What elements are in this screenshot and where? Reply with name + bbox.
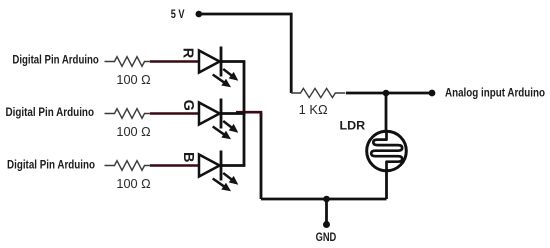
photoresistor LDR body circle	[367, 131, 407, 171]
wire red anode row2	[150, 112, 199, 115]
svg-text:100 Ω: 100 Ω	[116, 73, 150, 87]
resistor R2 100Ω	[105, 109, 151, 119]
wire from 1K resistor to analog terminal	[346, 92, 432, 95]
wire 5V rail: right then down to 1K resistor	[199, 14, 291, 93]
node analog input terminal dot	[429, 90, 436, 97]
LED D2 cathode bar	[220, 99, 223, 129]
LED D1 emission arrows	[213, 69, 239, 87]
svg-text:100 Ω: 100 Ω	[116, 177, 150, 191]
svg-text:1 KΩ: 1 KΩ	[299, 103, 328, 117]
svg-text:100 Ω: 100 Ω	[116, 125, 150, 139]
wire common cathode vertical bus x=244	[243, 62, 246, 166]
resistor R1 100Ω	[105, 57, 151, 67]
node 5V terminal dot	[196, 11, 203, 18]
LED D2 triangle	[199, 103, 220, 125]
svg-text:B: B	[180, 152, 196, 162]
wire red jumper row2 to riser	[236, 112, 261, 116]
node GND junction dot	[323, 196, 330, 203]
svg-text:5 V: 5 V	[171, 7, 185, 21]
svg-text:R: R	[179, 48, 195, 59]
wire common cathode riser at x=261	[260, 113, 263, 199]
node GND terminal dot	[323, 221, 330, 228]
wire cathode row3	[221, 164, 245, 167]
wire LDR bottom down to ground rail	[385, 169, 388, 199]
wire red anode row3	[150, 164, 199, 167]
wire junction down to LDR top	[385, 93, 388, 133]
resistor R4 1KΩ zigzag	[291, 88, 345, 97]
resistor R3 100Ω	[105, 161, 151, 171]
LED D3 emission arrows	[213, 173, 239, 191]
svg-text:Analog input Arduino: Analog input Arduino	[445, 85, 545, 99]
LED D3 triangle	[199, 155, 220, 177]
svg-text:Digital Pin Arduino: Digital Pin Arduino	[12, 53, 98, 67]
wire red anode row1	[150, 60, 199, 63]
wire GND stub	[325, 199, 328, 225]
wire cathode row1	[221, 60, 245, 63]
LED D1 triangle	[199, 51, 220, 73]
svg-text:GND: GND	[316, 230, 337, 244]
wire cathode row2	[221, 112, 245, 115]
LDR internal serpentine element	[371, 131, 402, 171]
svg-text:G: G	[180, 100, 196, 111]
svg-text:Digital Pin Arduino: Digital Pin Arduino	[6, 105, 95, 119]
svg-text:LDR: LDR	[340, 118, 366, 132]
LED D2 emission arrows	[213, 121, 239, 139]
LED D3 cathode bar	[220, 151, 223, 181]
wire ground rail bottom	[261, 198, 387, 201]
LED D1 cathode bar	[220, 47, 223, 77]
svg-text:Digital Pin Arduino: Digital Pin Arduino	[7, 157, 95, 171]
node junction LDR/analog dot	[383, 90, 390, 97]
